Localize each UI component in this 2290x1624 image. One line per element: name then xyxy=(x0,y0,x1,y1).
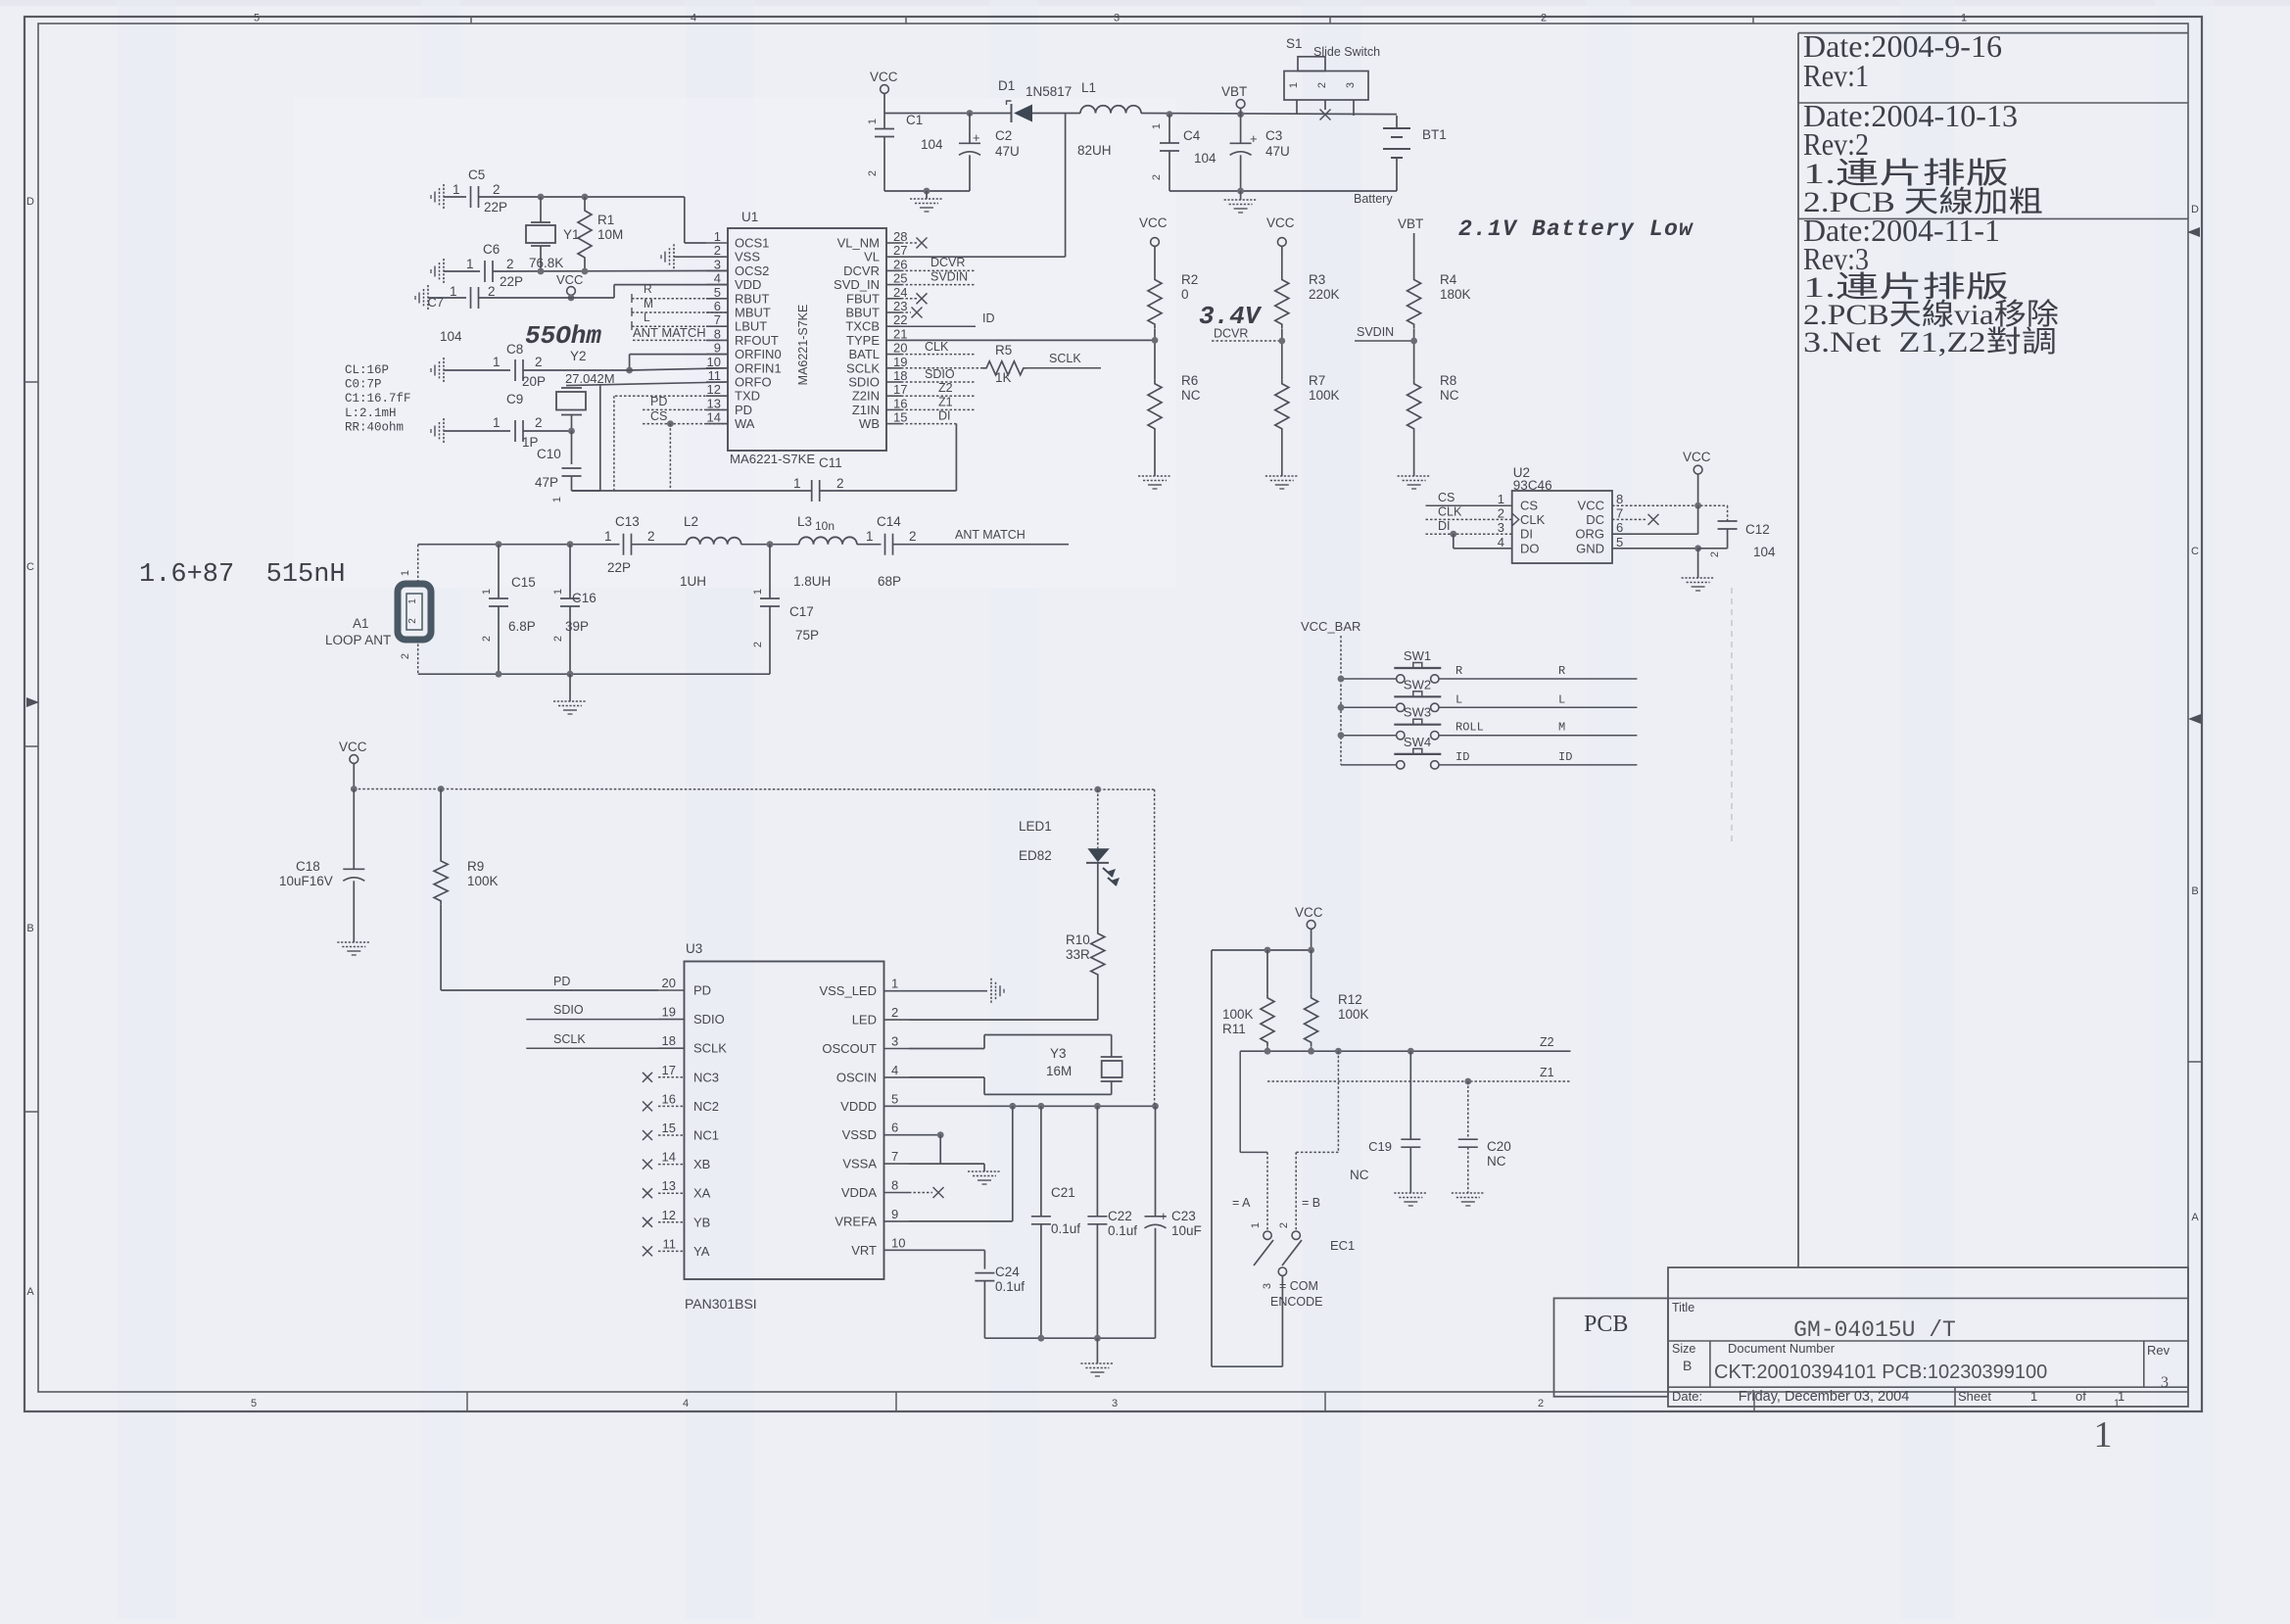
resistor R10 33R xyxy=(1066,930,1105,979)
net label PD wire to U1 pin 13 xyxy=(643,395,728,409)
svg-text:11: 11 xyxy=(663,1236,677,1251)
svg-text:104: 104 xyxy=(1194,151,1217,166)
svg-text:18: 18 xyxy=(662,1033,676,1048)
svg-text:A1: A1 xyxy=(353,616,369,631)
svg-text:VCC_BAR: VCC_BAR xyxy=(1301,619,1360,634)
svg-text:4: 4 xyxy=(891,1063,898,1077)
svg-text:PCB: PCB xyxy=(1584,1312,1628,1337)
title block xyxy=(1554,1267,2189,1407)
svg-text:3: 3 xyxy=(714,257,721,271)
net label ANT MATCH wire to U1 pin 8 xyxy=(633,325,728,340)
wire U1 pin 21 to R2 node xyxy=(901,337,1158,344)
svg-text:C8: C8 xyxy=(506,342,523,357)
svg-text:C21: C21 xyxy=(1051,1185,1075,1200)
svg-text:VSS: VSS xyxy=(735,250,760,264)
svg-text:C1:16.7fF: C1:16.7fF xyxy=(345,392,411,406)
svg-text:ID: ID xyxy=(1455,750,1469,764)
frame zone arrow left xyxy=(26,697,39,707)
ground left of C5 xyxy=(431,184,466,210)
svg-text:TXD: TXD xyxy=(735,389,760,404)
svg-text:XB: XB xyxy=(693,1157,710,1171)
U1 right pin names and numbers xyxy=(834,229,907,431)
no-connect X on U2 pin 7 xyxy=(1612,514,1659,525)
svg-text:D: D xyxy=(2191,204,2199,215)
svg-text:SCLK: SCLK xyxy=(846,360,880,375)
IC U2 93C46 body xyxy=(1512,465,1612,563)
svg-text:Y2: Y2 xyxy=(570,349,587,363)
capacitor C6 22P xyxy=(466,242,523,289)
svg-text:SDIO: SDIO xyxy=(925,367,955,381)
svg-text:L1: L1 xyxy=(1081,80,1096,95)
svg-text:RBUT: RBUT xyxy=(735,291,769,306)
net label ANT MATCH wire right xyxy=(893,528,1070,545)
svg-text:28: 28 xyxy=(893,229,907,244)
U2 pin names and numbers xyxy=(1498,492,1623,555)
svg-text:1: 1 xyxy=(450,284,457,299)
svg-text:6.8P: 6.8P xyxy=(508,619,536,634)
net label CLK wire to U2 pin 2 xyxy=(1426,505,1512,520)
svg-text:9: 9 xyxy=(891,1207,898,1221)
svg-text:VCC: VCC xyxy=(1266,215,1295,230)
switch SW4 xyxy=(1394,735,1441,769)
wire CS node down to C11 xyxy=(669,424,671,491)
svg-text:16: 16 xyxy=(662,1091,676,1106)
svg-text:4: 4 xyxy=(683,1398,689,1409)
capacitor C15 6.8P xyxy=(481,545,536,675)
capacitor C22 0.1uf xyxy=(1087,1106,1137,1338)
svg-text:Z1: Z1 xyxy=(938,396,953,409)
svg-text:C1: C1 xyxy=(906,113,923,127)
svg-text:1: 1 xyxy=(866,529,874,544)
svg-text:LBUT: LBUT xyxy=(735,319,767,334)
svg-text:104: 104 xyxy=(921,137,943,152)
svg-text:R3: R3 xyxy=(1309,272,1325,287)
svg-text:2: 2 xyxy=(407,618,418,624)
svg-text:7: 7 xyxy=(891,1149,898,1164)
svg-text:2: 2 xyxy=(752,642,764,647)
capacitor C9 1P xyxy=(493,392,543,450)
svg-text:VREFA: VREFA xyxy=(835,1214,877,1228)
VCC power symbol above R3 xyxy=(1266,215,1295,276)
svg-text:1: 1 xyxy=(407,598,418,604)
svg-text:SDIO: SDIO xyxy=(848,375,880,390)
svg-text:C: C xyxy=(2191,546,2199,557)
net label PD wire to U3 pin 20 xyxy=(441,975,658,990)
svg-text:S1: S1 xyxy=(1286,36,1303,51)
VCC power symbol above R12 xyxy=(1295,905,1323,950)
ground at U1 pin 2 VSS xyxy=(661,244,706,269)
svg-text:SVDIN: SVDIN xyxy=(1357,325,1394,339)
svg-text:C12: C12 xyxy=(1745,522,1770,537)
switch SW2 xyxy=(1394,677,1441,711)
svg-text:DI: DI xyxy=(1520,527,1533,542)
svg-text:220K: 220K xyxy=(1309,287,1340,302)
capacitor C16 39P xyxy=(552,545,596,675)
svg-text:PD: PD xyxy=(650,395,667,408)
resistor R9 100K xyxy=(434,789,498,991)
ground below U2 xyxy=(1682,549,1715,591)
svg-text:1: 1 xyxy=(400,570,411,576)
svg-text:VCC: VCC xyxy=(1295,905,1323,920)
U1 left pin names and numbers xyxy=(706,229,782,431)
svg-text:100K: 100K xyxy=(1309,388,1340,403)
svg-text:6: 6 xyxy=(714,299,721,313)
svg-text:3: 3 xyxy=(1345,82,1357,88)
svg-text:8: 8 xyxy=(1616,492,1623,506)
wire DI node to U2 pin 4 DO xyxy=(1454,534,1512,549)
wire U3 pin 10 VRT to C24 xyxy=(909,1250,984,1268)
svg-text:YB: YB xyxy=(693,1215,710,1229)
wire U1 pin 9 to Y2 C8 node xyxy=(626,355,728,374)
wire U3 pin 5 VDDD rail xyxy=(909,1103,1159,1110)
svg-text:OCS2: OCS2 xyxy=(735,263,769,278)
frame zone arrow right middle xyxy=(2188,714,2201,724)
net label DCVR at U1 pin 26 xyxy=(901,256,976,270)
svg-text:14: 14 xyxy=(662,1150,676,1165)
svg-text:DC: DC xyxy=(1586,512,1604,527)
wire VCC rail to sensor area xyxy=(351,786,1155,792)
antenna A1 LOOP ANT xyxy=(325,584,431,647)
svg-text:DCVR: DCVR xyxy=(1214,327,1248,341)
net label SCLK wire right of R5 xyxy=(1027,352,1101,368)
svg-text:100K: 100K xyxy=(467,874,499,888)
svg-text:1.6+87 515nH: 1.6+87 515nH xyxy=(139,560,346,590)
svg-text:VSS_LED: VSS_LED xyxy=(819,983,877,998)
svg-text:PD: PD xyxy=(693,983,711,998)
svg-text:= COM: = COM xyxy=(1279,1279,1318,1293)
svg-text:Y3: Y3 xyxy=(1050,1046,1067,1061)
wire C6 to U1 pin 3 xyxy=(493,268,728,275)
svg-text:R6: R6 xyxy=(1181,373,1198,388)
svg-text:C10: C10 xyxy=(537,447,561,461)
svg-text:2: 2 xyxy=(481,636,493,642)
svg-text:SW1: SW1 xyxy=(1404,648,1431,663)
capacitor C8 20P xyxy=(493,342,546,389)
svg-text:2: 2 xyxy=(909,529,917,544)
ground below antenna filter xyxy=(553,674,587,714)
svg-text:CLK: CLK xyxy=(1438,505,1462,519)
svg-text:14: 14 xyxy=(707,410,721,425)
svg-text:MA6221-S7KE: MA6221-S7KE xyxy=(730,452,815,466)
svg-text:0.1uf: 0.1uf xyxy=(1108,1223,1137,1238)
wire U3 pin 1 VSS_LED to ground xyxy=(909,979,1004,1004)
net label Z1 wire xyxy=(1267,1066,1571,1084)
svg-text:2: 2 xyxy=(1498,505,1504,520)
resistor R6 NC xyxy=(1148,373,1201,476)
wire decoupling bottom rail xyxy=(984,1335,1155,1342)
svg-text:of: of xyxy=(2075,1389,2086,1404)
svg-text:2: 2 xyxy=(506,257,514,271)
wire C8 to U1 pin 10 xyxy=(523,368,728,370)
wire U3 pin 3 OSCOUT to Y3 top xyxy=(909,1035,1112,1058)
svg-text:10n: 10n xyxy=(815,519,835,533)
svg-text:6: 6 xyxy=(891,1121,898,1135)
svg-text:PAN301BSI: PAN301BSI xyxy=(685,1296,757,1312)
svg-text:15: 15 xyxy=(893,410,907,425)
svg-text:2: 2 xyxy=(488,284,496,299)
svg-text:L: L xyxy=(644,310,650,324)
svg-text:NC3: NC3 xyxy=(693,1070,719,1084)
svg-text:2: 2 xyxy=(867,170,879,176)
wire U2 pin 5 GND xyxy=(1612,545,1701,551)
svg-text:20: 20 xyxy=(662,976,676,990)
svg-text:Z2: Z2 xyxy=(1540,1035,1554,1049)
crystal Y2 27.042M xyxy=(556,349,615,431)
wire U3 pin 9 VREFA to VDDD xyxy=(909,1106,1013,1221)
svg-text:C22: C22 xyxy=(1108,1209,1132,1223)
svg-text:A: A xyxy=(2191,1212,2199,1223)
capacitor C3 polarized xyxy=(1230,115,1290,191)
svg-text:ED82: ED82 xyxy=(1019,848,1052,863)
svg-text:1: 1 xyxy=(2118,1389,2124,1404)
capacitor C20 NC xyxy=(1458,1081,1511,1193)
switch SW1 xyxy=(1394,648,1441,683)
wire Z2 to EC1 pin 1 xyxy=(1240,1051,1267,1231)
svg-text:DCVR: DCVR xyxy=(843,263,880,278)
capacitor C2 polarized xyxy=(959,114,1020,192)
svg-text:13: 13 xyxy=(707,396,721,410)
wire SW2 row with net label L xyxy=(1338,693,1638,710)
svg-text:VDDD: VDDD xyxy=(840,1099,877,1114)
svg-text:1: 1 xyxy=(493,355,501,369)
svg-text:7: 7 xyxy=(1616,505,1623,520)
no-connect X on U1 pin 23 xyxy=(901,308,923,318)
svg-text:SW4: SW4 xyxy=(1404,735,1431,749)
svg-text:55Ohm: 55Ohm xyxy=(525,321,601,351)
svg-text:0.1uf: 0.1uf xyxy=(1051,1221,1080,1236)
svg-text:76.8K: 76.8K xyxy=(529,256,563,270)
U3 right pin names and numbers xyxy=(819,977,909,1258)
VBT net label above R4 xyxy=(1398,216,1423,276)
svg-text:22P: 22P xyxy=(500,274,523,289)
resistor R11 100K xyxy=(1222,950,1274,1051)
svg-text:Y1: Y1 xyxy=(563,227,580,242)
net label SVDIN at U1 pin 25 xyxy=(901,270,976,285)
svg-text:16M: 16M xyxy=(1046,1064,1072,1078)
svg-text:C20: C20 xyxy=(1487,1139,1511,1154)
svg-text:2: 2 xyxy=(535,355,543,369)
VCC power symbol top xyxy=(870,70,898,114)
svg-text:SCLK: SCLK xyxy=(553,1032,586,1046)
svg-text:R1: R1 xyxy=(597,213,614,227)
svg-text:1: 1 xyxy=(604,529,612,544)
svg-text:2: 2 xyxy=(1151,174,1163,180)
svg-text:= A: = A xyxy=(1232,1196,1251,1210)
svg-text:U1: U1 xyxy=(741,210,758,224)
annotation 550hm xyxy=(525,321,601,351)
svg-text:3: 3 xyxy=(1114,13,1120,24)
svg-text:5: 5 xyxy=(1616,535,1623,549)
svg-text:DI: DI xyxy=(938,409,951,423)
ground left of C7 xyxy=(415,285,466,310)
svg-text:SVD_IN: SVD_IN xyxy=(834,277,880,292)
svg-text:R9: R9 xyxy=(467,859,484,874)
svg-text:NC1: NC1 xyxy=(693,1128,719,1143)
svg-text:SCLK: SCLK xyxy=(1049,352,1081,365)
encoder EC1 xyxy=(1232,1196,1355,1309)
svg-text:R2: R2 xyxy=(1181,272,1198,287)
svg-text:1: 1 xyxy=(493,415,501,430)
svg-text:Rev:2: Rev:2 xyxy=(1803,126,1869,162)
VCC power symbol lower left xyxy=(339,740,367,789)
capacitor C5 22P xyxy=(453,167,507,215)
svg-text:WB: WB xyxy=(859,416,880,431)
svg-text:1: 1 xyxy=(793,476,801,491)
svg-text:1UH: 1UH xyxy=(680,574,706,589)
no-connect X on U1 pin 28 xyxy=(901,238,928,249)
wire A1 pin 2 riser xyxy=(400,640,418,674)
svg-text:104: 104 xyxy=(440,329,462,344)
svg-text:100K: 100K xyxy=(1222,1007,1254,1022)
wire U3 pin 2 LED to R10 xyxy=(909,979,1098,1020)
svg-text:FBUT: FBUT xyxy=(846,291,880,306)
svg-text:5: 5 xyxy=(254,13,260,24)
ground below C1 C2 xyxy=(884,188,970,212)
crystal Y1 76.8K xyxy=(526,197,580,271)
svg-text:R12: R12 xyxy=(1338,992,1362,1007)
svg-text:7: 7 xyxy=(714,312,721,327)
wire SW3 row with net label ROLL xyxy=(1338,721,1638,739)
svg-text:VDDA: VDDA xyxy=(841,1185,877,1200)
switch SW3 xyxy=(1394,705,1441,740)
title block Date and Sheet row xyxy=(1672,1389,2124,1405)
svg-text:Size: Size xyxy=(1672,1342,1695,1356)
svg-text:LOOP ANT: LOOP ANT xyxy=(325,633,391,647)
diode D1 1N5817 xyxy=(998,78,1072,122)
svg-text:104: 104 xyxy=(1753,545,1776,559)
svg-text:SW3: SW3 xyxy=(1404,705,1431,720)
svg-text:R11: R11 xyxy=(1222,1022,1246,1036)
svg-text:16: 16 xyxy=(893,396,907,410)
svg-text:VCC: VCC xyxy=(1683,450,1711,464)
svg-text:17: 17 xyxy=(893,382,907,397)
U3 no-connect X marks on pins 17-11 xyxy=(643,1073,652,1257)
svg-text:CS: CS xyxy=(1520,499,1538,513)
net label DCVR wire xyxy=(1212,327,1285,345)
svg-text:C4: C4 xyxy=(1183,128,1201,143)
svg-text:Z2: Z2 xyxy=(938,381,953,395)
svg-text:VSSD: VSSD xyxy=(842,1127,877,1142)
svg-text:8: 8 xyxy=(891,1178,898,1193)
svg-text:EC1: EC1 xyxy=(1330,1238,1355,1253)
wire C13 to L2 xyxy=(632,544,687,546)
svg-text:19: 19 xyxy=(662,1005,676,1020)
net label VCC_BAR xyxy=(1301,619,1360,765)
svg-text:2: 2 xyxy=(714,243,721,258)
svg-text:CKT:20010394101 PCB:1023039910: CKT:20010394101 PCB:10230399100 xyxy=(1714,1361,2047,1383)
resistor R8 NC xyxy=(1407,373,1459,476)
svg-text:1.8UH: 1.8UH xyxy=(793,574,831,589)
svg-text:Date:: Date: xyxy=(1672,1389,1702,1404)
svg-text:11: 11 xyxy=(708,368,722,383)
svg-text:XA: XA xyxy=(693,1186,711,1201)
svg-text:21: 21 xyxy=(893,326,907,341)
net label Z2 wire xyxy=(1240,1035,1570,1055)
svg-text:OSCIN: OSCIN xyxy=(836,1070,877,1084)
svg-text:180K: 180K xyxy=(1440,287,1471,302)
svg-text:C9: C9 xyxy=(506,392,523,406)
svg-text:4: 4 xyxy=(714,271,721,286)
capacitor C1 xyxy=(867,113,943,191)
net label SDIO wire to U3 pin 19 xyxy=(526,1003,658,1020)
svg-text:C3: C3 xyxy=(1265,128,1282,143)
svg-text:75P: 75P xyxy=(795,628,819,643)
svg-text:BT1: BT1 xyxy=(1422,127,1447,142)
svg-text:VCC: VCC xyxy=(339,740,367,754)
IC U3 PAN301BSI body xyxy=(685,941,884,1312)
net label Z1 at U1 pin 16 xyxy=(901,396,976,410)
svg-text:C16: C16 xyxy=(572,591,596,605)
svg-text:3: 3 xyxy=(1498,520,1504,535)
net label SDIO at U1 pin 18 xyxy=(901,367,976,382)
svg-text:L:2.1mH: L:2.1mH xyxy=(345,406,397,420)
svg-text:22P: 22P xyxy=(607,560,631,575)
capacitor C11 xyxy=(793,455,844,502)
svg-text:24: 24 xyxy=(893,285,907,300)
ground below C20 xyxy=(1452,1193,1485,1206)
svg-text:Friday, December 03, 2004: Friday, December 03, 2004 xyxy=(1739,1389,1910,1405)
svg-text:100K: 100K xyxy=(1338,1007,1369,1022)
IC U1 MA6221-S7KE body xyxy=(728,210,886,466)
svg-text:5: 5 xyxy=(714,285,721,300)
svg-text:C17: C17 xyxy=(789,604,814,619)
svg-text:4: 4 xyxy=(1498,535,1504,549)
svg-text:A: A xyxy=(26,1286,34,1298)
svg-text:MBUT: MBUT xyxy=(735,306,771,320)
net label SCLK wire to U3 pin 18 xyxy=(526,1032,658,1048)
svg-text:NC: NC xyxy=(1440,388,1459,403)
svg-text:VL: VL xyxy=(864,250,880,264)
svg-text:2: 2 xyxy=(535,415,543,430)
svg-text:NC: NC xyxy=(1487,1154,1506,1169)
capacitor C14 68P xyxy=(866,514,917,589)
wire C11 row xyxy=(572,424,957,491)
VBT power symbol top xyxy=(1221,84,1247,115)
ground below R6 xyxy=(1138,476,1171,489)
svg-text:M: M xyxy=(644,297,653,310)
svg-text:1: 1 xyxy=(1151,123,1163,129)
wire U1 pin 11 row to Y2 top xyxy=(566,382,728,386)
svg-text:47U: 47U xyxy=(1265,144,1290,159)
svg-text:1: 1 xyxy=(466,257,474,271)
revision text Rev:2 xyxy=(1803,98,2043,218)
svg-text:1: 1 xyxy=(891,977,898,991)
svg-text:19: 19 xyxy=(893,355,907,369)
revision text Rev:1 xyxy=(1803,28,2002,93)
svg-text:TXCB: TXCB xyxy=(845,319,880,334)
capacitor C10 47P xyxy=(535,431,582,502)
svg-text:WA: WA xyxy=(735,416,755,431)
capacitor C4 xyxy=(1151,115,1217,191)
svg-text:Z2IN: Z2IN xyxy=(852,389,880,404)
capacitor C12 104 xyxy=(1698,505,1776,559)
page number 1 bottom right xyxy=(2094,1414,2113,1456)
svg-text:L3: L3 xyxy=(797,514,812,529)
net label DI at U1 pin 15 xyxy=(901,409,956,424)
svg-text:17: 17 xyxy=(662,1063,676,1077)
svg-text:L2: L2 xyxy=(684,514,698,529)
svg-text:1N5817: 1N5817 xyxy=(1026,84,1072,99)
ground below C19 xyxy=(1394,1193,1427,1206)
svg-text:1: 1 xyxy=(1498,492,1504,506)
svg-text:DCVR: DCVR xyxy=(930,256,965,269)
svg-text:ANT MATCH: ANT MATCH xyxy=(955,528,1026,542)
svg-text:NC: NC xyxy=(1350,1168,1369,1182)
svg-text:B: B xyxy=(26,923,33,934)
resistor R7 100K xyxy=(1275,373,1340,476)
svg-text:Title: Title xyxy=(1672,1301,1694,1314)
svg-text:PD: PD xyxy=(553,975,570,988)
